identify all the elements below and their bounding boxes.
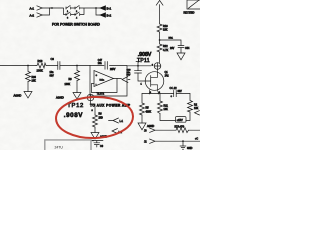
annotation red ellipse: [55, 96, 133, 140]
wire R21 to supply: [160, 114, 176, 121]
connector wiper arrow: [122, 77, 130, 83]
svg-text:63V: 63V: [50, 75, 55, 78]
svg-text:C54: C54: [185, 47, 190, 50]
svg-text:13K: 13K: [163, 29, 168, 32]
wire R7A right: [189, 129, 201, 131]
svg-text:2K0: 2K0: [99, 116, 104, 119]
svg-text:420K: 420K: [146, 110, 152, 113]
ground AGND (R9): [56, 93, 81, 100]
wire R2 down: [186, 112, 190, 121]
svg-text:TP11: TP11: [137, 58, 150, 64]
IC box TL072: [90, 66, 127, 97]
wire node C right: [160, 40, 181, 45]
wire switch right: [66, 8, 96, 15]
svg-text:R21: R21: [164, 104, 169, 107]
switch S1b: [66, 12, 80, 20]
resistor R22: [157, 43, 168, 53]
paper scan texture: [0, 0, 200, 150]
wire op-amp feedback: [92, 79, 118, 93]
resistor R5: [140, 94, 152, 116]
svg-text:AGND: AGND: [14, 94, 22, 98]
svg-text:15K: 15K: [194, 107, 199, 110]
svg-text:28V: 28V: [110, 67, 115, 71]
svg-text:100K: 100K: [65, 83, 71, 86]
ground AGND (R36): [14, 92, 33, 99]
junction node B: [95, 7, 97, 9]
wire J2 right: [155, 140, 200, 142]
capacitor C4: [170, 87, 191, 98]
svg-text:24TU: 24TU: [55, 146, 64, 150]
svg-text:26V: 26V: [170, 47, 175, 50]
svg-text:4.7K: 4.7K: [163, 49, 168, 52]
wire op-amp output: [117, 78, 122, 80]
svg-text:13K: 13K: [164, 108, 169, 111]
svg-text:+C: +C: [195, 138, 198, 141]
wire down to R18: [159, 5, 161, 23]
test point TP12: [87, 94, 94, 101]
connector B-2: [100, 13, 112, 18]
svg-text:GND: GND: [187, 147, 193, 150]
wire C20 to gate: [138, 73, 145, 81]
capacitor C9: [91, 141, 104, 149]
connector B-1: [96, 6, 112, 11]
svg-text:.908V: .908V: [64, 112, 83, 119]
svg-text:-: -: [96, 82, 97, 86]
capacitor C54: [170, 46, 190, 51]
connector edge arrow: [195, 111, 200, 115]
svg-text:C4 .22: C4 .22: [170, 87, 178, 90]
svg-text:R18: R18: [163, 25, 168, 28]
node F stub: [136, 62, 140, 66]
wire J3 to R7A: [155, 129, 176, 131]
svg-text:R19: R19: [38, 59, 43, 63]
ground GND chassis: [180, 141, 193, 150]
wire C54 to ground: [180, 48, 182, 53]
junction dot: [51, 7, 53, 9]
ground AGND (R5): [138, 123, 154, 130]
connector J3: [144, 128, 155, 132]
svg-text:A-1: A-1: [30, 7, 35, 11]
svg-text:NR1: NR1: [169, 38, 174, 40]
rectifier board box: [184, 0, 201, 14]
connector up-arrow top right: [156, 0, 163, 5]
svg-text:B-1: B-1: [107, 7, 112, 11]
resistor R18: [157, 23, 168, 33]
wire R22 to TP11: [159, 53, 161, 63]
svg-text:JA2: JA2: [165, 74, 170, 77]
ground AGND (R6): [91, 133, 107, 140]
wire to switch: [50, 8, 67, 15]
svg-text:R22: R22: [163, 45, 168, 48]
wire C8 to op-amp: [60, 65, 90, 67]
highlight grey board box: [45, 140, 91, 150]
svg-text:AGND: AGND: [147, 125, 154, 128]
svg-text:A-2: A-2: [30, 14, 35, 18]
wire R19 to C8: [46, 65, 58, 67]
svg-text:AGND: AGND: [56, 96, 64, 100]
resistor R7A: [175, 126, 189, 133]
resistor R21: [158, 94, 169, 114]
svg-text:.908V: .908V: [138, 52, 152, 58]
svg-text:R36: R36: [32, 76, 37, 79]
svg-text:10K: 10K: [32, 80, 37, 83]
transistor Q1: [145, 71, 169, 94]
test point TP11: [137, 58, 161, 69]
supply +15V: [176, 117, 187, 123]
wire TP11 to Q1 drain: [157, 69, 159, 72]
switch S1a: [66, 6, 80, 14]
ground AGND (C54): [177, 53, 185, 60]
wire node B down: [96, 8, 100, 15]
resistor R2: [188, 94, 199, 113]
wire to node F: [127, 65, 151, 67]
svg-text:RECT/BD: RECT/BD: [184, 11, 195, 14]
wire R36 to ground: [27, 82, 29, 92]
junction dot node F: [137, 65, 139, 67]
resistor R9: [65, 66, 80, 86]
connector L-1: [109, 118, 124, 123]
wire R18 to node: [159, 33, 161, 43]
svg-text:FOR POWER SWITCH BOARD: FOR POWER SWITCH BOARD: [52, 22, 101, 26]
svg-text:50V: 50V: [127, 74, 131, 76]
capacitor C8: [50, 57, 60, 78]
connector A-1: [30, 6, 43, 11]
connector A-2: [30, 13, 43, 18]
wire R5 to ground: [141, 115, 143, 123]
op-amp IC1a: [94, 71, 114, 87]
svg-text:+15V: +15V: [177, 118, 183, 122]
wire R6 to ground: [94, 128, 96, 133]
junction dot node E: [76, 65, 78, 67]
capacitor C47: [98, 60, 108, 69]
junction dot node C: [159, 39, 161, 41]
junction dot J2: [182, 140, 184, 142]
svg-text:B-2: B-2: [107, 14, 112, 18]
wire TP12 to R6: [91, 101, 96, 115]
resistor R36: [26, 66, 37, 83]
wire bottom bus: [142, 93, 172, 95]
svg-text:R7A 470: R7A 470: [175, 126, 185, 129]
connector L-2: [112, 129, 123, 135]
wire A-1 to junction: [42, 7, 52, 9]
svg-text:C8: C8: [51, 57, 55, 61]
svg-text:IC1a: IC1a: [100, 80, 105, 82]
capacitor C20: [127, 66, 142, 77]
wire main signal: [0, 65, 36, 67]
svg-text:63V: 63V: [178, 90, 183, 93]
junction dots bus: [149, 93, 151, 95]
junction dot node D: [27, 65, 29, 67]
junction dot C9: [92, 140, 94, 142]
wire A-2 up to node: [42, 8, 49, 15]
resistor R6: [93, 113, 104, 128]
svg-text:100K: 100K: [37, 69, 43, 73]
svg-text:TL072: TL072: [97, 91, 105, 95]
svg-text:TP12: TP12: [67, 103, 84, 109]
svg-text:C47: C47: [98, 60, 103, 62]
wire R9 to ground: [76, 81, 78, 93]
resistor R19: [36, 59, 46, 73]
connector J2: [144, 139, 155, 143]
